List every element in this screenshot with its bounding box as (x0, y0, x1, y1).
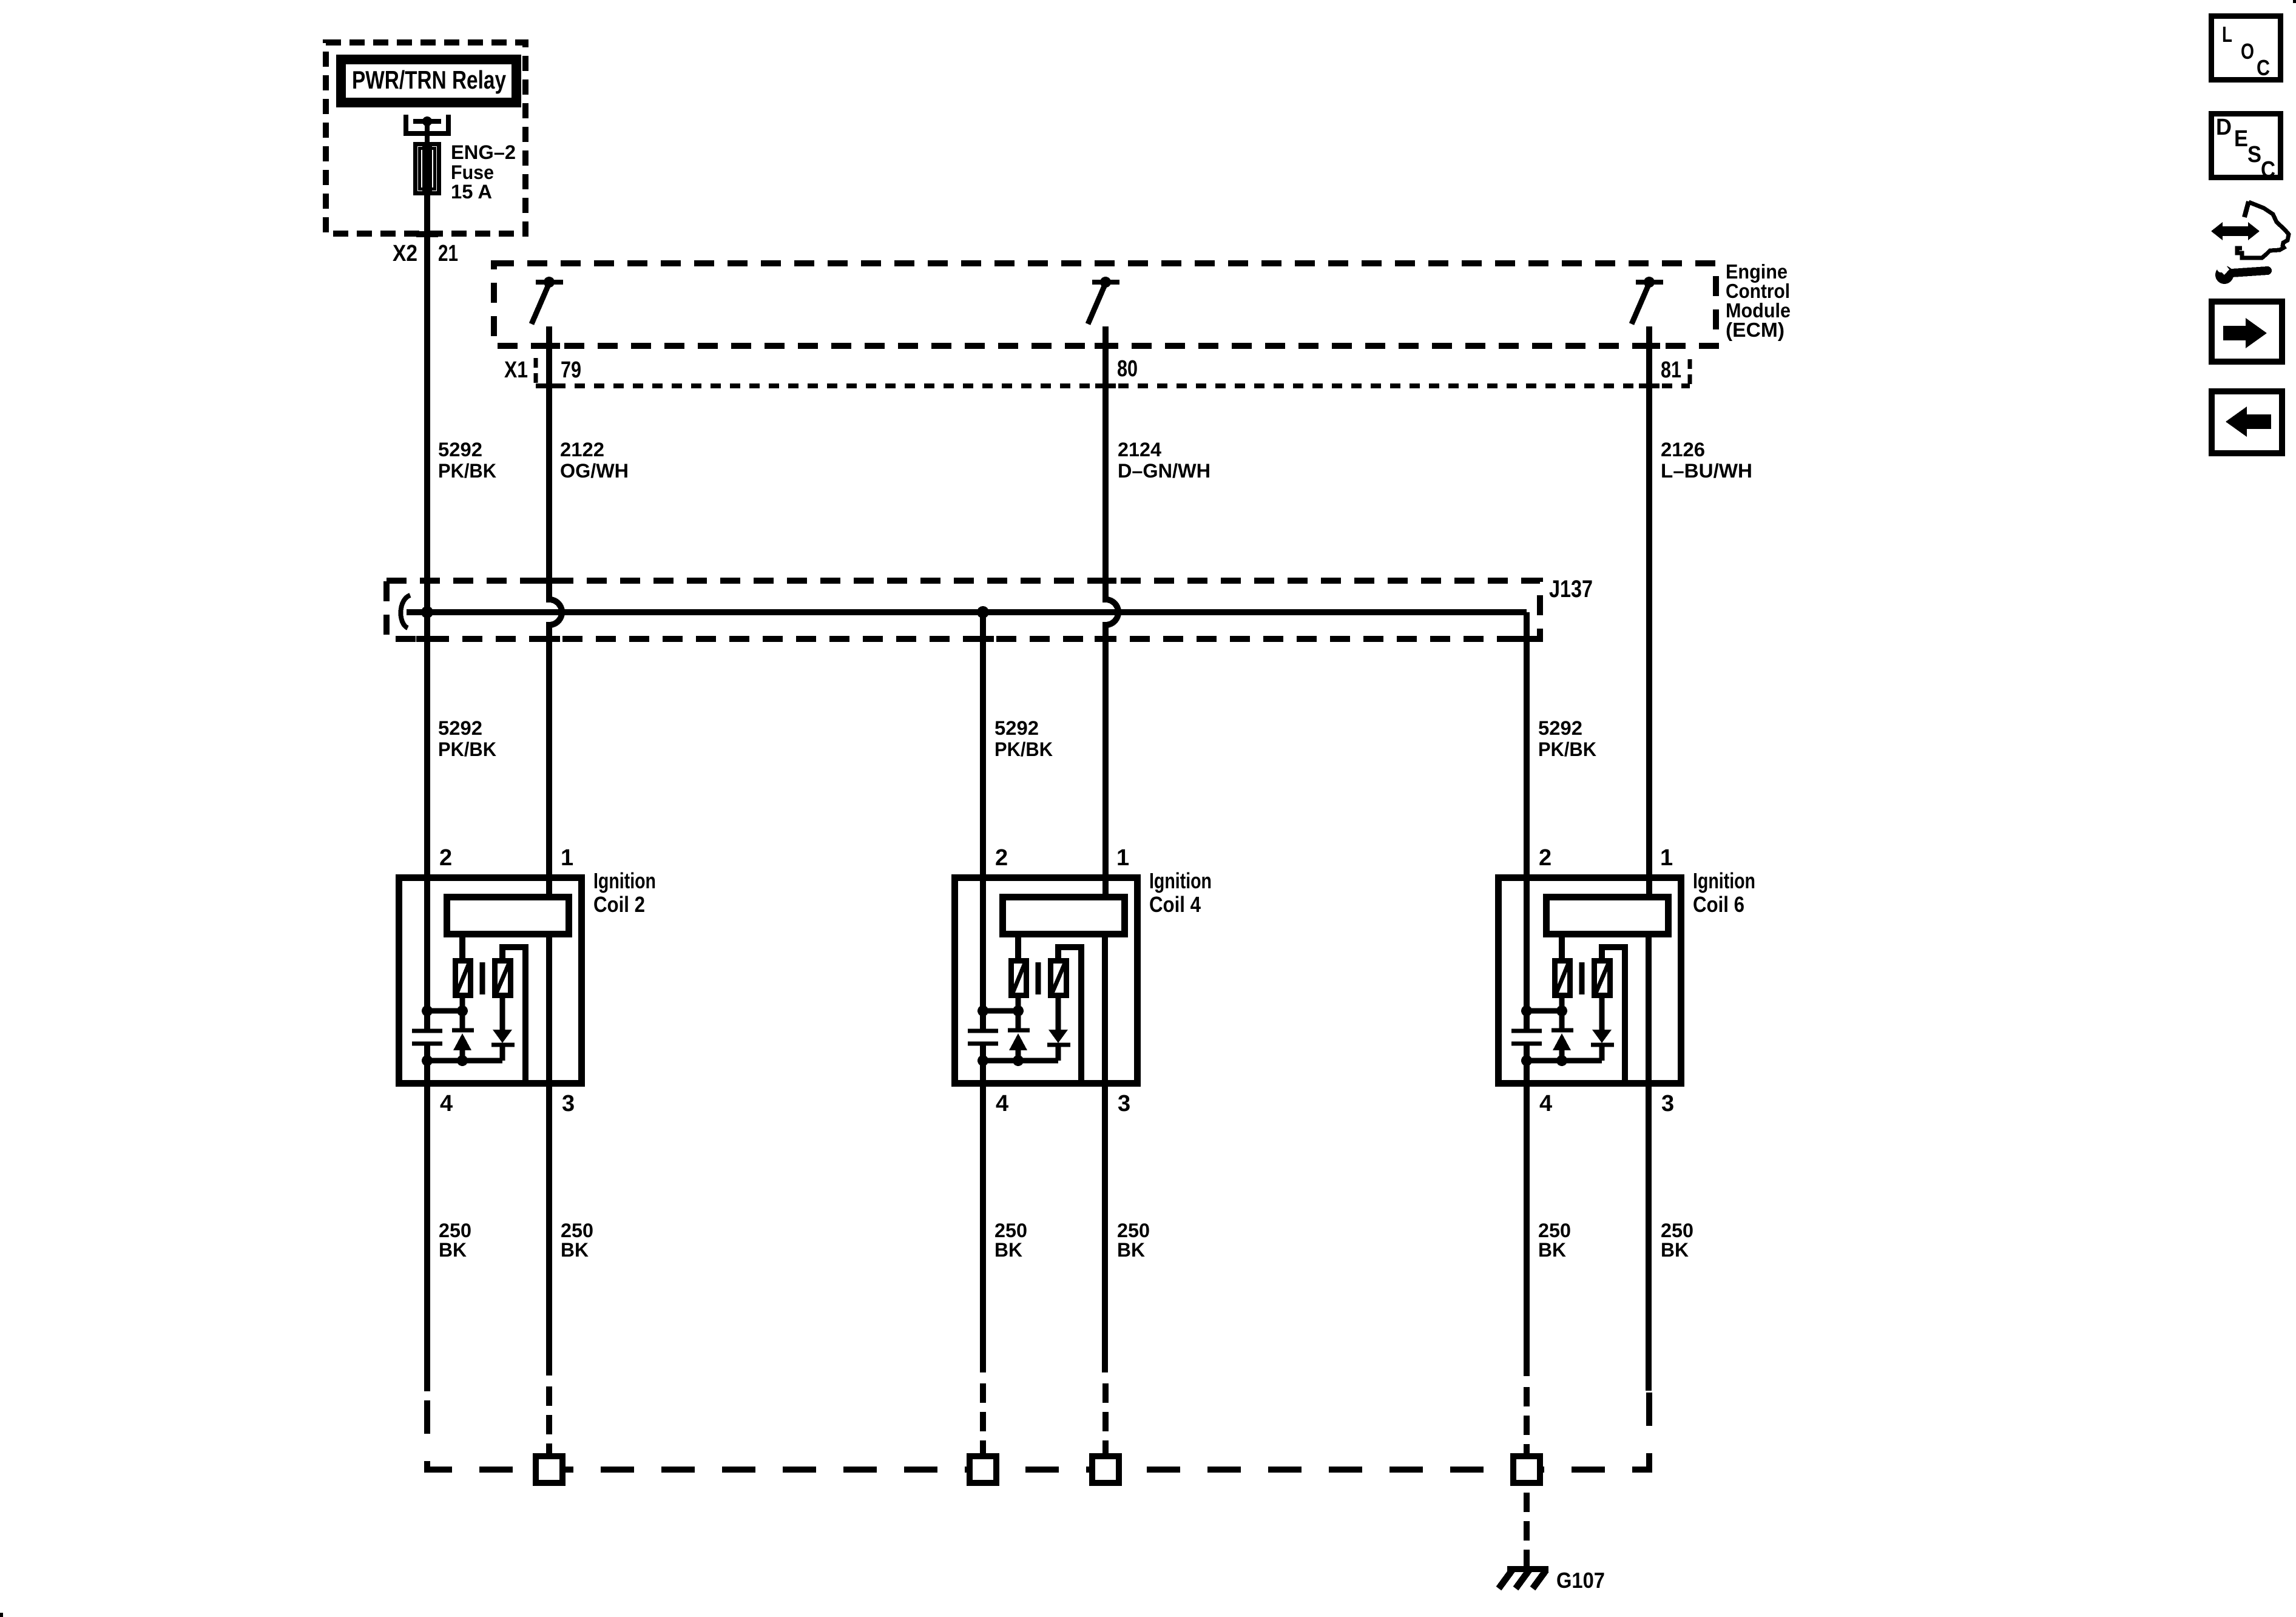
splice J137 enclosure (dashed) (387, 581, 1540, 639)
svg-text:2124: 2124 (1118, 439, 1161, 461)
svg-text:PWR/TRN Relay: PWR/TRN Relay (352, 66, 507, 94)
svg-text:D–GN/WH: D–GN/WH (1118, 460, 1210, 482)
svg-text:2: 2 (1539, 845, 1551, 871)
wire pin 1 to pin 3 (546, 937, 552, 1376)
icon next arrow box (2212, 302, 2282, 362)
dashed drop coil4 pin4 (980, 1383, 986, 1455)
relay K PWR/TRN Relay box (341, 59, 516, 103)
svg-text:Coil 4: Coil 4 (1149, 892, 1201, 917)
svg-text:G107: G107 (1556, 1568, 1605, 1593)
ignition coil 4 T4 (955, 845, 1212, 1372)
svg-text:Fuse: Fuse (451, 161, 494, 183)
diode D1 coil 4 (1016, 998, 1021, 1030)
ground bus connector square (970, 1456, 996, 1483)
splice junction dot coil4 branch (977, 606, 989, 618)
svg-text:Coil 6: Coil 6 (1693, 892, 1744, 917)
svg-text:5292: 5292 (438, 717, 482, 739)
wire internal node row upper (427, 1008, 462, 1014)
ground bus connector square (1092, 1456, 1119, 1483)
diode D2 coil 2 (500, 998, 505, 1030)
ECM driver switch for pin 81 (1636, 280, 1663, 285)
splice junction dot wire A (421, 606, 433, 618)
svg-text:BK: BK (561, 1239, 589, 1261)
svg-text:Ignition: Ignition (593, 868, 656, 893)
X1 row right tick (1688, 359, 1692, 388)
wire internal node row upper (1527, 1008, 1562, 1014)
page marks (0, 1613, 3, 1617)
coil 6 winding element left (1555, 961, 1570, 996)
svg-text:PK/BK: PK/BK (1538, 738, 1596, 760)
svg-text:3: 3 (1118, 1091, 1130, 1116)
svg-text:250: 250 (561, 1220, 593, 1241)
coil 2 winding element left (456, 961, 471, 996)
X1 row crossing ticks (539, 383, 1660, 388)
wire 5292 PK/BK fuse to splice J137 and coil 2 primary branch (424, 195, 430, 1030)
connector X1 dotted row (536, 383, 1690, 388)
svg-text:3: 3 (562, 1091, 575, 1116)
svg-text:PK/BK: PK/BK (438, 738, 496, 760)
fuse F ENG-2 15A outer (416, 144, 439, 194)
svg-text:O: O (2241, 39, 2254, 64)
icon double arrow (2221, 226, 2250, 236)
junction dots upper (422, 1005, 433, 1016)
icon LOC box (2212, 16, 2281, 80)
coil 2 case box (399, 878, 582, 1084)
svg-text:BK: BK (1117, 1239, 1145, 1261)
ECM enclosure (dashed) (494, 263, 1716, 346)
coil 6 secondary output wire (1602, 947, 1625, 1084)
wire 2124 D-GN/WH pin80 to coil4 pin1 (hops splice bus) (1106, 326, 1118, 894)
svg-text:Coil 2: Coil 2 (593, 892, 645, 917)
diode D1 coil 2 (460, 998, 465, 1030)
svg-text:E: E (2234, 126, 2248, 152)
capacitor C coil 4 (968, 1031, 998, 1044)
svg-text:2: 2 (995, 845, 1008, 871)
svg-text:BK: BK (439, 1239, 467, 1261)
svg-text:PK/BK: PK/BK (438, 460, 496, 482)
border crossing tick pin 81 (1638, 343, 1660, 349)
wire internal node row lower (983, 1058, 1058, 1064)
X1 row left tick (534, 358, 538, 388)
svg-text:79: 79 (561, 357, 581, 383)
svg-text:81: 81 (1661, 357, 1681, 383)
svg-text:J137: J137 (1549, 576, 1593, 603)
svg-text:4: 4 (440, 1091, 453, 1116)
svg-text:(ECM): (ECM) (1726, 319, 1784, 341)
wire pin 1 to pin 3 (1646, 937, 1652, 1391)
wire primary block to driver winding (1559, 937, 1565, 958)
border crossing tick at fuse block exit (416, 231, 438, 237)
coil 6 primary winding block (1547, 897, 1669, 934)
coil 6 case box (1499, 878, 1681, 1084)
svg-text:2126: 2126 (1661, 439, 1705, 461)
svg-text:1: 1 (1116, 845, 1129, 871)
ground symbol G107 (1524, 1557, 1530, 1569)
svg-text:2: 2 (439, 845, 452, 871)
svg-text:250: 250 (1538, 1220, 1571, 1241)
ECM driver switch for pin 80 (1092, 280, 1119, 285)
coil 4 primary winding block (1003, 897, 1125, 934)
svg-text:Ignition: Ignition (1693, 868, 1755, 893)
coil 4 core bar (1036, 962, 1041, 994)
fuse F ENG-2 inner (420, 149, 435, 189)
svg-text:1: 1 (561, 845, 573, 871)
ignition coil 6 T6 (1499, 845, 1756, 1391)
svg-text:C: C (2261, 157, 2275, 183)
wire primary block to driver winding (1015, 937, 1021, 958)
svg-text:5292: 5292 (1538, 717, 1582, 739)
svg-text:ENG–2: ENG–2 (451, 141, 516, 163)
wire internal node row lower (427, 1058, 502, 1064)
svg-text:4: 4 (996, 1091, 1008, 1116)
wire 5292 to coil4 pin2 (980, 612, 986, 1030)
wire 2122 OG/WH pin79 to coil2 pin1 (hops splice bus) (549, 326, 562, 894)
junction dots upper (1521, 1005, 1532, 1016)
svg-text:250: 250 (439, 1220, 471, 1241)
coil 2 secondary output wire (502, 947, 525, 1084)
svg-text:250: 250 (994, 1220, 1027, 1241)
coil 2 primary winding block (447, 897, 569, 934)
svg-text:C: C (2257, 55, 2270, 80)
svg-text:BK: BK (1661, 1239, 1689, 1261)
border crossing tick pin 80 (1095, 343, 1116, 349)
svg-text:3: 3 (1661, 1091, 1674, 1116)
svg-text:D: D (2216, 115, 2232, 140)
icon back arrow box (2212, 391, 2282, 453)
wire terminal to fuse (425, 121, 430, 200)
capacitor C coil 2 (412, 1031, 442, 1044)
J137 border crossing ticks (538, 578, 1116, 584)
svg-text:15 A: 15 A (451, 181, 492, 203)
terminal bar (413, 119, 441, 124)
svg-text:21: 21 (438, 241, 458, 266)
svg-text:80: 80 (1117, 356, 1138, 382)
icon wrench (2232, 271, 2267, 273)
ground bus connector square (1513, 1456, 1540, 1483)
relay output terminal bracket (406, 115, 448, 133)
diode D1 coil 6 (1559, 998, 1565, 1030)
coil 6 core bar (1579, 962, 1585, 994)
svg-text:L–BU/WH: L–BU/WH (1661, 460, 1752, 482)
splice bus wire with end hook (400, 595, 410, 628)
coil 4 winding element right (1051, 961, 1067, 996)
junction dots lower (1521, 1055, 1532, 1066)
svg-text:4: 4 (1539, 1091, 1552, 1116)
junction dots lower (977, 1055, 988, 1066)
diode D2 coil 4 (1056, 998, 1061, 1030)
svg-text:X2: X2 (393, 241, 417, 266)
ground bus connector square (536, 1456, 562, 1483)
svg-text:L: L (2222, 22, 2232, 47)
coil 4 secondary output wire (1058, 947, 1081, 1084)
terminal junction dot (422, 116, 432, 126)
svg-text:Ignition: Ignition (1149, 868, 1212, 893)
svg-text:OG/WH: OG/WH (560, 460, 629, 482)
border crossing tick pin 79 (538, 343, 560, 349)
svg-text:5292: 5292 (994, 717, 1039, 739)
ignition coil 2 T2 (399, 845, 657, 1391)
svg-text:250: 250 (1661, 1220, 1693, 1241)
svg-text:250: 250 (1117, 1220, 1150, 1241)
ground bus dashed (250 BK harness) (427, 1391, 1649, 1470)
dashed drop coil4 pin3 (1102, 1383, 1109, 1455)
svg-text:PK/BK: PK/BK (994, 738, 1053, 760)
wire 2126 L-BU/WH pin81 to coil6 pin1 (1646, 326, 1652, 894)
wire pin 1 to pin 3 (1102, 937, 1108, 1372)
fuse element bar (422, 146, 432, 191)
wire pin 4 branch (424, 1044, 430, 1391)
svg-text:BK: BK (1538, 1239, 1566, 1261)
junction dots lower (422, 1055, 433, 1066)
svg-text:1: 1 (1660, 845, 1673, 871)
dashed drop coil2 pin3 (546, 1386, 552, 1455)
dashed drop to ground G107 (1524, 1493, 1530, 1561)
wire primary block to driver winding (459, 937, 465, 958)
svg-text:BK: BK (994, 1239, 1022, 1261)
coil 6 winding element right (1595, 961, 1610, 996)
icon DESC box (2212, 114, 2281, 178)
wire internal node row upper (983, 1008, 1018, 1014)
wire internal node row lower (1527, 1058, 1602, 1064)
svg-text:X1: X1 (504, 357, 528, 383)
diode D2 coil 6 (1599, 998, 1605, 1030)
coil 2 winding element right (495, 961, 511, 996)
coil 2 core bar (480, 962, 485, 994)
coil 4 winding element left (1011, 961, 1027, 996)
wire pin 4 branch (980, 1044, 986, 1372)
capacitor C coil 6 (1511, 1031, 1542, 1044)
wire 5292 bus corner to coil6 pin2 (1524, 612, 1530, 1030)
icon engine outline (2244, 201, 2249, 217)
coil 4 case box (955, 878, 1138, 1084)
svg-text:2122: 2122 (560, 439, 604, 461)
junction dots upper (977, 1005, 988, 1016)
dashed drop coil6 pin4 (1524, 1387, 1530, 1455)
svg-text:5292: 5292 (438, 439, 482, 461)
fuse block underhood enclosure (dashed) (326, 42, 525, 234)
svg-text:S: S (2247, 142, 2261, 167)
ECM driver switch for pin 79 (536, 280, 563, 285)
wire pin 4 branch (1524, 1044, 1530, 1376)
